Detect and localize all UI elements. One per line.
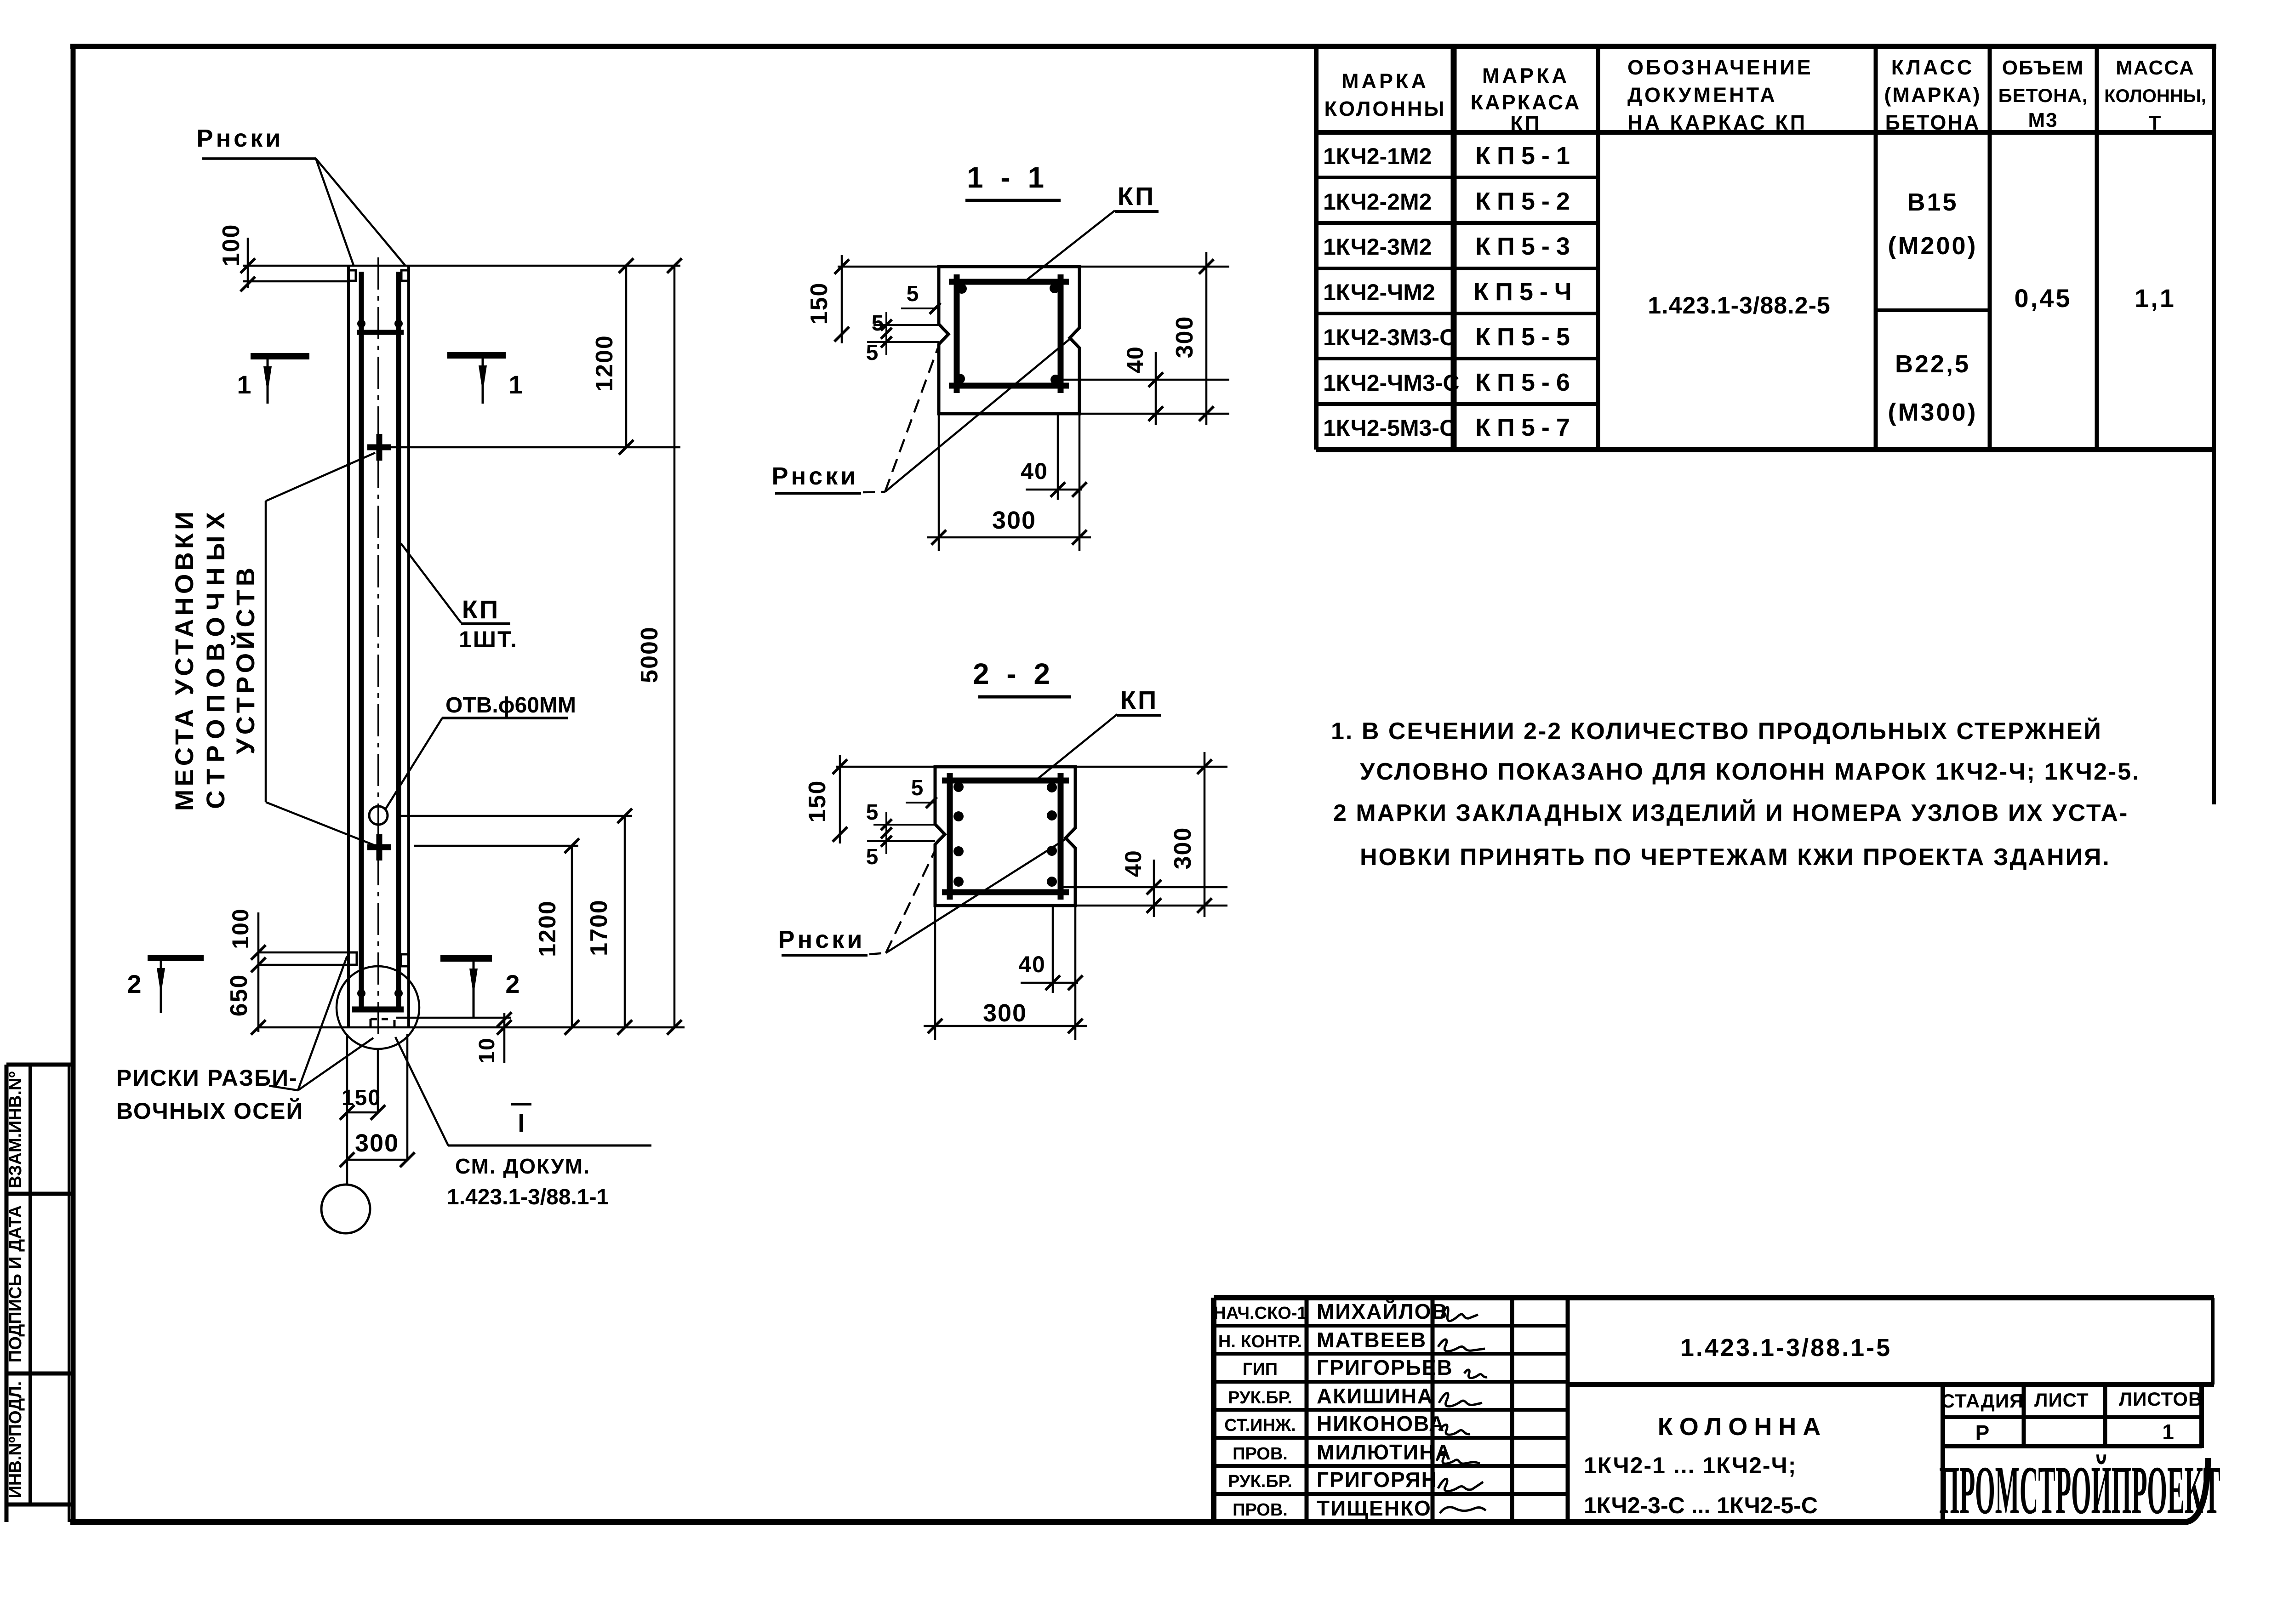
section 2 - 2: bottom 300 dim (934, 906, 936, 1040)
svg-text:В22,5: В22,5 (1895, 350, 1970, 378)
svg-text:ТИЩЕНКО: ТИЩЕНКО (1317, 1496, 1432, 1520)
svg-text:АКИШИНА: АКИШИНА (1317, 1384, 1433, 1408)
svg-text:СТАДИЯ: СТАДИЯ (1941, 1390, 2024, 1412)
svg-text:1КЧ2-ЧМ2: 1КЧ2-ЧМ2 (1323, 279, 1435, 305)
svg-text:300: 300 (1170, 827, 1196, 870)
table grid (1314, 46, 1319, 450)
svg-text:КОЛОННЫ: КОЛОННЫ (1324, 97, 1446, 120)
svg-text:НАЧ.СКО-1: НАЧ.СКО-1 (1213, 1304, 1307, 1323)
svg-text:Рнски: Рнски (197, 125, 284, 152)
dim 1200 bottom (571, 846, 573, 1027)
svg-text:КП: КП (1118, 182, 1155, 211)
svg-text:ПРОМСТРОЙПРОЕКТ: ПРОМСТРОЙПРОЕКТ (1939, 1452, 2221, 1528)
svg-text:100: 100 (218, 224, 245, 267)
svg-text:НА КАРКАС КП: НА КАРКАС КП (1627, 111, 1807, 134)
svg-text:МАРКА: МАРКА (1341, 69, 1429, 93)
svg-text:КП5-Ч: КП5-Ч (1473, 278, 1578, 306)
svg-text:УСЛОВНО ПОКАЗАНО ДЛЯ КОЛОНН: УСЛОВНО ПОКАЗАНО ДЛЯ КОЛОНН МАРОК 1КЧ2-Ч… (1360, 758, 2141, 785)
svg-text:БЕТОНА: БЕТОНА (1885, 111, 1981, 134)
svg-text:1: 1 (2162, 1420, 2174, 1444)
svg-text:5000: 5000 (636, 626, 663, 683)
svg-text:МАТВЕЕВ: МАТВЕЕВ (1317, 1328, 1427, 1352)
svg-text:СМ. ДОКУМ.: СМ. ДОКУМ. (455, 1154, 590, 1178)
svg-text:5: 5 (866, 341, 879, 365)
sm dokum label (448, 1145, 651, 1147)
section 1 - 1: right 300 dim (1079, 266, 1229, 268)
svg-text:1 - 1: 1 - 1 (967, 161, 1049, 194)
svg-text:КП: КП (462, 595, 500, 624)
svg-text:40: 40 (1120, 849, 1146, 877)
dim 1700 (624, 816, 626, 1027)
svg-text:I: I (518, 1108, 525, 1137)
ext lines bottom grooves (258, 952, 348, 954)
svg-text:МАССА: МАССА (2116, 57, 2195, 79)
svg-text:ВОЧНЫХ ОСЕЙ: ВОЧНЫХ ОСЕЙ (116, 1098, 303, 1124)
svg-text:ПРОВ.: ПРОВ. (1233, 1500, 1288, 1520)
svg-text:Т: Т (2149, 112, 2162, 134)
dim 100 top (247, 238, 249, 288)
svg-text:КП5-3: КП5-3 (1475, 233, 1576, 260)
svg-text:2 - 2: 2 - 2 (973, 657, 1055, 690)
svg-text:МЕСТА УСТАНОВКИ: МЕСТА УСТАНОВКИ (170, 508, 199, 811)
svg-text:150: 150 (804, 780, 831, 823)
sheet frame (70, 44, 2216, 49)
svg-text:Рнски: Рнски (778, 926, 865, 953)
svg-text:(М300): (М300) (1888, 399, 1977, 426)
svg-text:300: 300 (1171, 316, 1198, 359)
svg-text:2: 2 (127, 969, 141, 998)
svg-text:НИКОНОВА: НИКОНОВА (1317, 1412, 1445, 1436)
detail I mark (511, 1103, 531, 1105)
grid bubble (321, 1185, 370, 1233)
svg-text:КП5-7: КП5-7 (1475, 414, 1576, 441)
svg-text:1200: 1200 (534, 900, 561, 957)
svg-text:150: 150 (806, 282, 833, 325)
section 2 - 2: concrete outline with notches (935, 767, 1075, 906)
svg-text:5: 5 (872, 311, 884, 336)
svg-text:150: 150 (342, 1086, 381, 1110)
dims 150/300 under column (346, 1034, 348, 1185)
svg-text:1КЧ2-3М3-С: 1КЧ2-3М3-С (1323, 325, 1456, 350)
tie top (357, 330, 404, 335)
svg-text:40: 40 (1018, 952, 1046, 977)
section 2 - 2: right 300 dim (1075, 766, 1227, 768)
svg-text:СТРОПОВОЧНЫХ: СТРОПОВОЧНЫХ (201, 506, 230, 809)
svg-text:СТ.ИНЖ.: СТ.ИНЖ. (1224, 1416, 1296, 1435)
svg-text:КП: КП (1510, 112, 1541, 135)
section 2 - 2: notch ext lines + 5 dims (873, 824, 935, 826)
grooves (riski notches) (348, 270, 356, 281)
svg-text:ИНВ.NºПОДЛ.: ИНВ.NºПОДЛ. (6, 1381, 25, 1499)
svg-text:10: 10 (475, 1037, 499, 1063)
svg-text:1.423.1-3/88.1-5: 1.423.1-3/88.1-5 (1680, 1334, 1892, 1362)
svg-text:100: 100 (228, 908, 253, 949)
svg-text:1: 1 (237, 370, 251, 399)
svg-text:1КЧ2-2М2: 1КЧ2-2М2 (1323, 189, 1432, 215)
section 1 - 1: concrete outline with notches (939, 267, 1079, 414)
svg-text:В15: В15 (1907, 188, 1958, 216)
svg-text:КОЛОННА: КОЛОННА (1658, 1413, 1827, 1441)
svg-text:ПОДПИСЬ И ДАТА: ПОДПИСЬ И ДАТА (6, 1205, 25, 1362)
svg-text:КП5-5: КП5-5 (1475, 323, 1576, 351)
ext from cross1 (388, 446, 680, 449)
svg-text:40: 40 (1021, 458, 1048, 484)
svg-text:5: 5 (907, 282, 919, 306)
svg-text:1.423.1-3/88.2-5: 1.423.1-3/88.2-5 (1648, 292, 1831, 319)
sidebar stamp boxes (5, 1065, 9, 1522)
svg-text:40: 40 (1122, 346, 1148, 373)
svg-text:МИХАЙЛОВ: МИХАЙЛОВ (1317, 1299, 1448, 1323)
svg-text:КП5-2: КП5-2 (1475, 188, 1576, 215)
svg-text:ОБОЗНАЧЕНИЕ: ОБОЗНАЧЕНИЕ (1627, 56, 1813, 79)
svg-text:1КЧ2-1 ... 1КЧ2-Ч;: 1КЧ2-1 ... 1КЧ2-Ч; (1584, 1453, 1797, 1478)
section 2 - 2: stirrup (947, 773, 953, 900)
dim 100 top: labels done. section markers (251, 353, 309, 359)
section 1 - 1: bottom 40 dim (1057, 414, 1059, 500)
svg-text:ОТВ.ϕ60ММ: ОТВ.ϕ60ММ (445, 693, 576, 718)
svg-text:ДОКУМЕНТА: ДОКУМЕНТА (1627, 83, 1777, 107)
svg-text:300: 300 (992, 507, 1036, 534)
section 1 - 1: bottom 300 dim (938, 414, 940, 551)
section 2 - 2: right 40 dim (1061, 886, 1227, 889)
svg-text:М3: М3 (2028, 109, 2058, 131)
svg-text:5: 5 (911, 776, 924, 800)
svg-text:1КЧ2-3-С ... 1КЧ2-5-С: 1КЧ2-3-С ... 1КЧ2-5-С (1584, 1493, 1818, 1518)
bottom recess dashed (371, 1019, 394, 1027)
svg-text:БЕТОНА,: БЕТОНА, (1998, 85, 2088, 106)
dim 100/650 bottom left (257, 912, 260, 1032)
svg-text:1: 1 (508, 370, 523, 399)
centerline (377, 257, 379, 1038)
top extension lines (243, 265, 680, 267)
section 1 - 1: notch ext lines + 5 dims (873, 324, 939, 326)
svg-text:ЛИСТ: ЛИСТ (2034, 1389, 2089, 1411)
dim 5000 (674, 266, 676, 1027)
svg-text:ПРОВ.: ПРОВ. (1233, 1444, 1288, 1464)
svg-text:1КЧ2-3М2: 1КЧ2-3М2 (1323, 234, 1432, 260)
dim 10 (recess) (396, 1017, 511, 1019)
detail circle (337, 966, 419, 1049)
svg-text:МАРКА: МАРКА (1482, 64, 1570, 87)
ext from hole (399, 815, 632, 817)
svg-text:1200: 1200 (591, 335, 618, 392)
rebar bars (359, 272, 364, 1009)
svg-text:1. В СЕЧЕНИИ 2-2 КОЛИЧЕСТВО: 1. В СЕЧЕНИИ 2-2 КОЛИЧЕСТВО ПРОДОЛЬНЫХ С… (1331, 718, 2102, 745)
svg-text:1.423.1-3/88.1-1: 1.423.1-3/88.1-1 (447, 1185, 609, 1209)
svg-text:Рнски: Рнски (772, 462, 859, 490)
section 2 - 2: bottom 40 dim (1052, 906, 1054, 993)
svg-text:КП5-1: КП5-1 (1475, 142, 1576, 170)
section 2 - 2: dim 150 left (836, 766, 935, 768)
section 1 - 1: rebar dots (957, 284, 967, 294)
svg-text:300: 300 (355, 1129, 399, 1157)
section 1 - 1: right 40 dim (1061, 379, 1229, 381)
ext from cross2 (414, 845, 578, 847)
hole otv60 (369, 806, 388, 825)
svg-text:МИЛЮТИНА: МИЛЮТИНА (1317, 1440, 1452, 1464)
svg-text:КП5-6: КП5-6 (1475, 369, 1576, 396)
svg-text:КП: КП (1120, 685, 1158, 714)
svg-text:ГРИГОРЬЕВ: ГРИГОРЬЕВ (1317, 1356, 1453, 1379)
svg-text:1КЧ2-5М3-С: 1КЧ2-5М3-С (1323, 415, 1456, 441)
svg-text:1700: 1700 (586, 899, 612, 956)
bottom extension line (258, 1026, 685, 1029)
svg-text:(М200): (М200) (1888, 232, 1977, 260)
svg-text:650: 650 (226, 974, 252, 1017)
svg-text:ВЗАМ.ИНВ.Nº: ВЗАМ.ИНВ.Nº (6, 1071, 25, 1189)
svg-text:300: 300 (983, 999, 1027, 1027)
tie bottom (352, 1007, 404, 1013)
svg-text:РУК.БР.: РУК.БР. (1228, 1388, 1292, 1407)
title block grid (1214, 1295, 2214, 1300)
svg-text:0,45: 0,45 (2015, 284, 2072, 313)
svg-text:Н. КОНТР.: Н. КОНТР. (1218, 1332, 1302, 1351)
svg-text:КАРКАСА: КАРКАСА (1471, 91, 1581, 114)
svg-text:КЛАСС: КЛАСС (1891, 56, 1974, 79)
dim 1200 top (625, 266, 628, 447)
svg-text:5: 5 (866, 800, 879, 825)
section 1 - 1: stirrup (954, 274, 960, 393)
svg-text:КОЛОННЫ,: КОЛОННЫ, (2104, 86, 2206, 106)
svg-text:1КЧ2-1М2: 1КЧ2-1М2 (1323, 143, 1432, 169)
svg-text:1КЧ2-ЧМ3-С: 1КЧ2-ЧМ3-С (1323, 370, 1460, 396)
strop cross 2 (377, 834, 382, 860)
mesta leaders (265, 501, 267, 802)
svg-text:2 МАРКИ ЗАКЛАДНЫХ ИЗДЕЛИЙ И: 2 МАРКИ ЗАКЛАДНЫХ ИЗДЕЛИЙ И НОМЕРА УЗЛОВ… (1333, 799, 2129, 826)
section 2 - 2: rebar dots (953, 782, 964, 792)
svg-text:УСТРОЙСТВ: УСТРОЙСТВ (231, 564, 260, 754)
svg-text:НОВКИ ПРИНЯТЬ ПО ЧЕРТЕЖАМ КЖ: НОВКИ ПРИНЯТЬ ПО ЧЕРТЕЖАМ КЖИ ПРОЕКТА ЗД… (1360, 844, 2111, 871)
strop cross 1 (377, 434, 382, 461)
svg-text:1ШТ.: 1ШТ. (459, 627, 518, 652)
svg-text:ГРИГОРЯН: ГРИГОРЯН (1317, 1468, 1438, 1492)
svg-text:1,1: 1,1 (2135, 284, 2176, 313)
svg-text:ОБЪЕМ: ОБЪЕМ (2002, 57, 2084, 79)
svg-text:5: 5 (866, 845, 879, 869)
svg-text:(МАРКА): (МАРКА) (1884, 83, 1981, 107)
section 1 - 1: dim 150 left (838, 266, 939, 268)
svg-text:ГИП: ГИП (1243, 1360, 1278, 1379)
svg-text:РУК.БР.: РУК.БР. (1228, 1472, 1292, 1491)
svg-text:ЛИСТОВ: ЛИСТОВ (2119, 1388, 2203, 1410)
svg-text:2: 2 (505, 969, 519, 998)
elevation: column outline (347, 266, 350, 1026)
svg-text:Р: Р (1975, 1421, 1990, 1445)
